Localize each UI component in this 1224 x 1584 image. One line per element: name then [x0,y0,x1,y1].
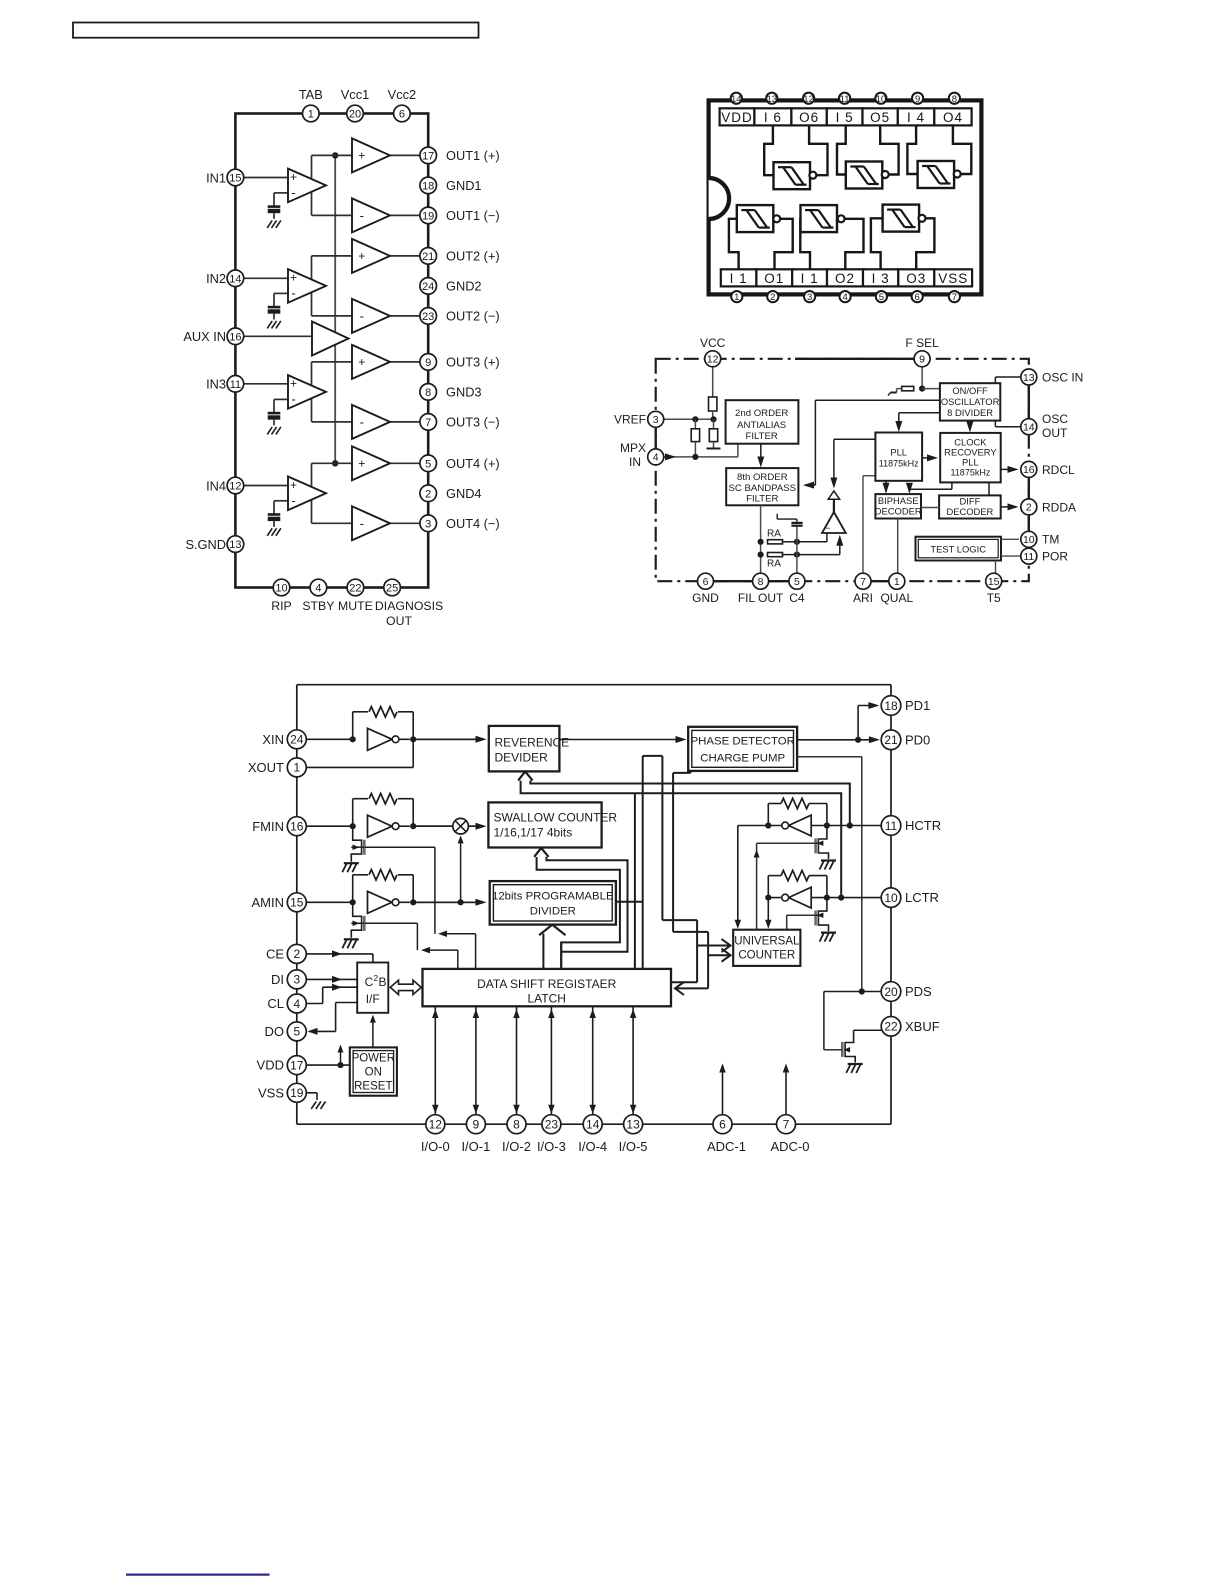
svg-text:5: 5 [425,458,431,470]
svg-text:2nd ORDER: 2nd ORDER [735,408,788,419]
svg-text:DECODER: DECODER [946,506,993,517]
svg-text:6: 6 [915,292,920,303]
svg-text:18: 18 [884,699,898,713]
svg-text:3: 3 [807,292,812,303]
svg-text:COUNTER: COUNTER [738,950,795,962]
svg-text:XBUF: XBUF [905,1019,940,1034]
svg-text:5: 5 [794,576,800,588]
svg-text:-: - [360,208,364,223]
svg-text:I/O-4: I/O-4 [578,1139,607,1154]
svg-text:17: 17 [290,1058,304,1072]
svg-text:-: - [291,286,295,301]
svg-text:DEVIDER: DEVIDER [495,751,549,765]
svg-text:TEST LOGIC: TEST LOGIC [930,544,986,555]
svg-text:POR: POR [1042,550,1068,564]
svg-text:DIVIDER: DIVIDER [530,906,576,918]
svg-text:1: 1 [293,761,300,775]
svg-text:18: 18 [422,180,434,192]
svg-text:8: 8 [952,94,957,105]
svg-text:ON/OFF: ON/OFF [952,385,988,396]
svg-text:DO: DO [265,1024,285,1039]
svg-text:+: + [358,249,365,263]
svg-text:2: 2 [1026,502,1032,514]
svg-text:Vcc1: Vcc1 [341,87,369,102]
svg-text:10: 10 [275,582,287,594]
svg-text:IN1: IN1 [206,170,226,185]
svg-text:OSC IN: OSC IN [1042,370,1083,384]
svg-text:OUT: OUT [386,614,412,628]
svg-text:1: 1 [894,576,900,588]
svg-text:1: 1 [734,292,739,303]
svg-text:I/O-5: I/O-5 [619,1139,648,1154]
svg-text:14: 14 [731,94,742,105]
svg-text:23: 23 [545,1118,559,1132]
svg-text:I 4: I 4 [907,110,925,125]
svg-text:TM: TM [1042,533,1059,547]
svg-text:16: 16 [290,820,304,834]
svg-text:+: + [358,149,365,163]
svg-text:PHASE DETECTOR: PHASE DETECTOR [691,736,795,748]
svg-text:RA: RA [767,529,781,540]
svg-text:ARI: ARI [853,591,873,605]
svg-text:QUAL: QUAL [880,591,913,605]
svg-text:17: 17 [422,150,434,162]
svg-text:VSS: VSS [938,271,968,286]
svg-text:OUT1 (−): OUT1 (−) [446,208,500,223]
svg-text:6: 6 [719,1118,726,1132]
svg-text:S.GND: S.GND [185,537,226,552]
svg-text:I/O-3: I/O-3 [537,1139,566,1154]
svg-text:IN: IN [629,455,641,469]
svg-text:C4: C4 [789,591,805,605]
svg-text:-: - [291,185,295,200]
svg-text:C: C [365,975,374,989]
svg-text:CE: CE [266,947,284,962]
svg-text:8: 8 [425,387,431,399]
svg-text:4: 4 [653,452,659,464]
svg-text:CHARGE PUMP: CHARGE PUMP [700,753,785,765]
svg-text:OSCILLATOR: OSCILLATOR [941,396,1000,407]
svg-text:11: 11 [1023,551,1034,563]
svg-text:AMIN: AMIN [252,895,285,910]
svg-text:T5: T5 [987,591,1001,605]
svg-text:15: 15 [988,576,1000,588]
svg-text:+: + [290,271,297,285]
svg-text:1: 1 [308,108,314,120]
svg-text:PLL: PLL [890,447,907,458]
svg-text:6: 6 [399,108,405,120]
svg-text:FIL OUT: FIL OUT [738,591,784,605]
svg-text:7: 7 [425,417,431,429]
svg-text:OUT: OUT [1042,426,1068,440]
svg-text:+: + [290,377,297,391]
svg-text:3: 3 [425,518,431,530]
svg-text:8 DIVIDER: 8 DIVIDER [947,407,993,418]
svg-text:12bits PROGRAMABLE: 12bits PROGRAMABLE [492,891,614,903]
svg-text:12: 12 [229,480,241,492]
svg-text:4: 4 [293,997,300,1011]
svg-text:OUT3 (−): OUT3 (−) [446,415,500,430]
svg-text:HCTR: HCTR [905,818,941,833]
svg-text:14: 14 [229,273,241,285]
svg-text:1/16,1/17 4bits: 1/16,1/17 4bits [494,826,573,840]
svg-text:-: - [360,415,364,430]
svg-text:I/O-1: I/O-1 [461,1139,490,1154]
svg-text:I 5: I 5 [836,110,854,125]
svg-text:IN4: IN4 [206,478,226,493]
svg-text:8th ORDER: 8th ORDER [737,472,788,483]
svg-text:OUT2 (−): OUT2 (−) [446,309,500,324]
svg-text:Vcc2: Vcc2 [388,87,416,102]
svg-text:O1: O1 [764,271,784,286]
svg-text:16: 16 [229,331,241,343]
svg-text:−: − [825,523,830,533]
svg-text:13: 13 [767,94,778,105]
svg-text:8: 8 [758,576,764,588]
svg-text:PLL: PLL [962,456,979,467]
svg-text:LCTR: LCTR [905,890,939,905]
svg-text:10: 10 [876,94,887,105]
svg-text:10: 10 [1023,534,1035,546]
svg-text:7: 7 [783,1118,790,1132]
svg-text:ANTIALIAS: ANTIALIAS [737,420,786,431]
svg-text:FILTER: FILTER [746,494,778,505]
svg-text:12: 12 [429,1118,443,1132]
svg-text:24: 24 [290,733,304,747]
svg-text:4: 4 [315,582,321,594]
svg-text:2: 2 [770,292,775,303]
svg-text:12: 12 [707,354,719,366]
svg-text:-: - [360,309,364,324]
svg-text:I/O-2: I/O-2 [502,1139,531,1154]
svg-text:XOUT: XOUT [248,760,284,775]
svg-text:DI: DI [271,972,284,987]
svg-text:RESET: RESET [354,1081,392,1093]
svg-text:I/F: I/F [366,992,380,1006]
svg-text:20: 20 [349,108,361,120]
svg-text:OUT3 (+): OUT3 (+) [446,355,500,370]
svg-text:2: 2 [425,488,431,500]
svg-text:11: 11 [840,94,850,105]
svg-text:UNIVERSAL: UNIVERSAL [734,936,800,948]
svg-text:25: 25 [386,582,398,594]
svg-text:PDS: PDS [905,984,932,999]
svg-text:STBY: STBY [302,599,334,613]
svg-text:ADC-0: ADC-0 [770,1139,809,1154]
svg-text:9: 9 [425,357,431,369]
svg-text:O5: O5 [870,110,890,125]
svg-text:23: 23 [422,311,434,323]
svg-text:VDD: VDD [721,110,753,125]
svg-text:RDDA: RDDA [1042,500,1076,514]
svg-text:PD1: PD1 [905,698,930,713]
svg-text:13: 13 [229,539,241,551]
svg-text:O2: O2 [835,271,855,286]
svg-text:14: 14 [1023,421,1035,433]
svg-text:GND2: GND2 [446,279,482,294]
svg-text:RIP: RIP [271,599,292,613]
svg-text:OUT4 (−): OUT4 (−) [446,516,500,531]
svg-text:21: 21 [884,733,898,747]
svg-text:21: 21 [422,251,434,263]
svg-text:MUTE: MUTE [338,599,373,613]
svg-text:MPX: MPX [620,441,646,455]
svg-text:15: 15 [229,172,241,184]
svg-text:GND4: GND4 [446,486,482,501]
svg-text:7: 7 [860,576,866,588]
svg-text:DECODER: DECODER [875,505,922,516]
svg-text:22: 22 [349,582,361,594]
svg-text:SC BANDPASS: SC BANDPASS [729,483,797,494]
svg-text:19: 19 [422,210,434,222]
svg-text:VREF: VREF [614,413,646,427]
svg-text:VDD: VDD [257,1058,284,1073]
svg-text:REVERENCE: REVERENCE [495,736,570,750]
svg-text:OSC: OSC [1042,412,1068,426]
svg-text:9: 9 [915,94,920,105]
svg-text:11875kHz: 11875kHz [879,459,919,469]
svg-text:VSS: VSS [258,1085,284,1100]
svg-text:-: - [291,493,295,508]
svg-text:GND3: GND3 [446,385,482,400]
svg-text:AUX IN: AUX IN [183,329,226,344]
svg-text:DIAGNOSIS: DIAGNOSIS [375,599,443,613]
svg-text:24: 24 [422,281,434,293]
svg-text:22: 22 [884,1020,898,1034]
svg-text:I 1: I 1 [730,271,748,286]
svg-text:ON: ON [365,1067,382,1079]
svg-text:FILTER: FILTER [746,431,778,442]
svg-text:7: 7 [952,292,957,303]
svg-text:I 3: I 3 [872,271,890,286]
svg-text:11875kHz: 11875kHz [950,467,990,477]
svg-text:11: 11 [230,379,241,391]
svg-text:GND: GND [692,591,719,605]
svg-text:I 1: I 1 [801,271,819,286]
svg-text:DATA SHIFT REGISTAER: DATA SHIFT REGISTAER [477,977,616,991]
svg-text:I 6: I 6 [764,110,782,125]
svg-text:6: 6 [703,576,709,588]
svg-text:13: 13 [626,1118,640,1132]
svg-text:PD0: PD0 [905,732,930,747]
svg-text:20: 20 [884,985,898,999]
svg-text:10: 10 [884,891,898,905]
svg-text:+: + [290,478,297,492]
svg-text:9: 9 [473,1118,480,1132]
svg-text:-: - [291,392,295,407]
svg-text:ADC-1: ADC-1 [707,1139,746,1154]
svg-text:5: 5 [879,292,884,303]
svg-text:POWER: POWER [352,1053,395,1065]
svg-text:F SEL: F SEL [905,336,939,350]
svg-text:IN3: IN3 [206,377,226,392]
svg-text:SWALLOW COUNTER: SWALLOW COUNTER [494,811,618,825]
svg-text:13: 13 [1023,372,1035,384]
svg-text:16: 16 [1023,464,1035,476]
svg-text:15: 15 [290,896,304,910]
svg-text:3: 3 [293,973,300,987]
svg-text:B: B [378,975,386,989]
svg-text:XIN: XIN [262,732,284,747]
svg-text:+: + [290,170,297,184]
svg-text:IN2: IN2 [206,271,226,286]
svg-text:O4: O4 [943,110,963,125]
svg-text:2: 2 [293,947,300,961]
svg-text:CL: CL [267,996,284,1011]
svg-text:8: 8 [513,1118,520,1132]
svg-text:OUT1 (+): OUT1 (+) [446,148,500,163]
svg-text:12: 12 [803,94,814,105]
svg-text:RDCL: RDCL [1042,463,1075,477]
svg-text:19: 19 [290,1086,304,1100]
svg-text:11: 11 [885,819,898,833]
svg-text:-: - [360,516,364,531]
svg-text:O3: O3 [906,271,926,286]
svg-text:9: 9 [919,354,925,366]
svg-text:FMIN: FMIN [252,819,284,834]
svg-text:VCC: VCC [700,336,726,350]
svg-text:TAB: TAB [299,87,323,102]
svg-text:OUT4 (+): OUT4 (+) [446,456,500,471]
svg-text:RA: RA [767,559,781,570]
svg-text:4: 4 [842,292,847,303]
svg-text:O6: O6 [799,110,819,125]
svg-text:+: + [358,457,365,471]
svg-text:I/O-0: I/O-0 [421,1139,450,1154]
svg-text:14: 14 [586,1118,600,1132]
svg-text:LATCH: LATCH [527,992,565,1006]
svg-text:3: 3 [653,414,659,426]
svg-text:OUT2 (+): OUT2 (+) [446,249,500,264]
svg-text:5: 5 [293,1025,300,1039]
svg-text:+: + [358,355,365,369]
svg-text:BIPHASE: BIPHASE [878,495,919,506]
svg-text:GND1: GND1 [446,178,482,193]
